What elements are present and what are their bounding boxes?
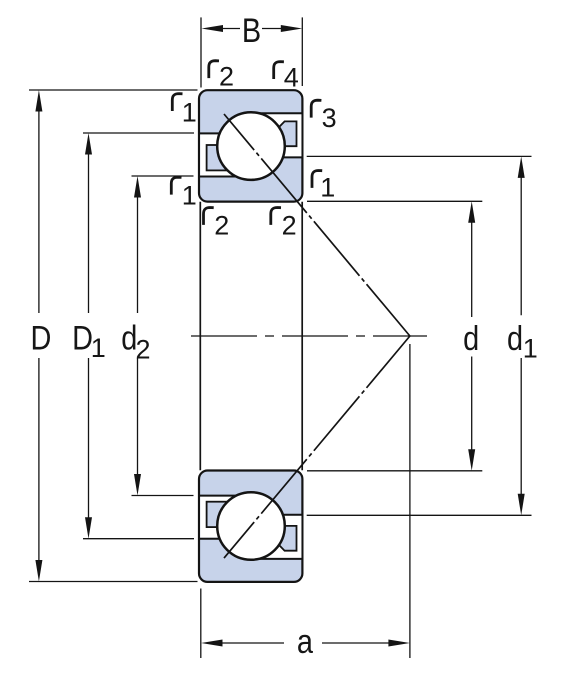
svg-text:2: 2 <box>136 334 151 364</box>
outer ring shoulder line left (top section) <box>199 132 257 134</box>
svg-text:1: 1 <box>182 180 197 210</box>
contact angle axis top (dash-dot through top ball to apex) <box>224 114 410 336</box>
B dimension line segments <box>220 28 240 30</box>
d1 dimension vertical <box>520 175 522 315</box>
svg-text:B: B <box>242 11 261 50</box>
a arrow left <box>201 640 223 647</box>
D dimension vertical <box>38 109 40 313</box>
inner ring shoulder line left (bottom section) <box>199 495 257 497</box>
d arrow top <box>468 201 475 223</box>
D1 dimension vertical <box>88 152 90 313</box>
a arrow right <box>388 640 410 647</box>
D1 extension line top <box>83 132 194 134</box>
horizontal centerline (dash-dot axis) <box>191 335 427 337</box>
label r1 left upper <box>172 94 182 111</box>
svg-text:D: D <box>30 318 51 357</box>
svg-text:d: d <box>463 319 479 358</box>
svg-text:1: 1 <box>91 333 106 363</box>
label r1 right middle <box>312 171 322 188</box>
raceway channel white right (bottom section) <box>244 516 301 558</box>
contact angle axis bottom (dash-dot through bottom ball to apex) <box>224 336 410 558</box>
D extension line top <box>29 89 198 91</box>
raceway channel white right (top section) <box>244 114 301 156</box>
cage segment left (bottom section) <box>207 502 253 527</box>
label r2 bottom-right <box>271 208 281 225</box>
d1 extension line bottom <box>307 514 532 516</box>
d2 extension line bottom <box>132 495 194 497</box>
B extension line left <box>200 17 202 87</box>
cage segment left (top section) <box>207 145 253 170</box>
svg-text:1: 1 <box>523 333 538 363</box>
D1 arrow top <box>85 133 92 155</box>
inner ring shoulder line right (top section) <box>246 156 302 158</box>
outer ring shoulder line left (bottom section) <box>199 538 257 540</box>
B extension line right <box>301 17 303 86</box>
a extension line left <box>200 589 202 659</box>
svg-text:3: 3 <box>322 103 337 133</box>
d1 arrow top <box>518 156 525 178</box>
B arrow left <box>202 25 224 32</box>
d extension line bottom <box>307 470 482 472</box>
svg-text:2: 2 <box>214 211 229 241</box>
a dimension line segments <box>220 642 284 644</box>
svg-text:4: 4 <box>284 63 299 93</box>
D1 arrow bottom <box>85 517 92 539</box>
cage segment right (bottom section, chamfered) <box>251 526 297 551</box>
B arrow right <box>281 25 303 32</box>
D1 extension line bottom <box>83 538 194 540</box>
raceway channel white left (top section) <box>200 135 258 176</box>
inner ring shoulder line right (bottom section) <box>246 514 302 516</box>
raceway channel white left (bottom section) <box>200 497 258 538</box>
svg-text:a: a <box>297 622 313 661</box>
d2 dimension vertical <box>137 195 139 313</box>
cage segment right (top section, chamfered) <box>251 121 297 146</box>
D arrow bottom <box>35 560 42 582</box>
svg-text:1: 1 <box>182 98 197 128</box>
svg-text:1: 1 <box>320 172 335 202</box>
a extension line right (from apex) <box>409 344 411 658</box>
ball (bottom section) <box>217 492 285 560</box>
label r3 right <box>311 100 321 117</box>
D extension line bottom <box>29 581 198 583</box>
d2 arrow bottom <box>134 474 141 496</box>
d dimension vertical <box>471 220 473 317</box>
bearing outer body (top section, blue rounded rect) <box>199 90 302 201</box>
outer ring shoulder line right (bottom section) <box>246 558 302 560</box>
d1 arrow bottom <box>518 494 525 516</box>
side face line left between sections <box>199 202 201 471</box>
D arrow top <box>35 90 42 112</box>
label r4 top-right <box>274 62 284 79</box>
label r2 bottom-left <box>204 208 214 225</box>
label r2 top-left <box>209 61 219 78</box>
svg-text:2: 2 <box>282 211 297 241</box>
d extension line top <box>307 200 482 202</box>
d1 extension line top <box>307 155 532 157</box>
bearing outer body (bottom section, blue rounded rect) <box>199 471 302 582</box>
d2 extension line top <box>132 175 194 177</box>
label r1 left lower <box>171 177 181 194</box>
inner ring shoulder line left (top section) <box>199 176 257 178</box>
d2 arrow top <box>134 176 141 198</box>
svg-text:2: 2 <box>219 61 234 91</box>
ball (top section) <box>217 112 285 180</box>
svg-text:d: d <box>507 319 523 358</box>
side face line right between sections <box>301 202 303 471</box>
d arrow bottom <box>468 449 475 471</box>
outer ring shoulder line right (top section) <box>246 112 302 114</box>
